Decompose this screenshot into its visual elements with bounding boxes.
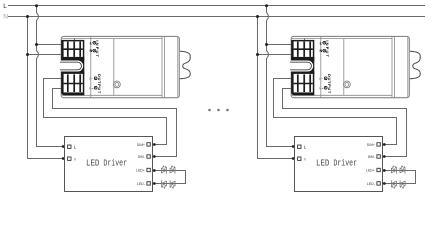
svg-text:N: N (3, 14, 8, 21)
svg-text:L: L (3, 3, 7, 10)
